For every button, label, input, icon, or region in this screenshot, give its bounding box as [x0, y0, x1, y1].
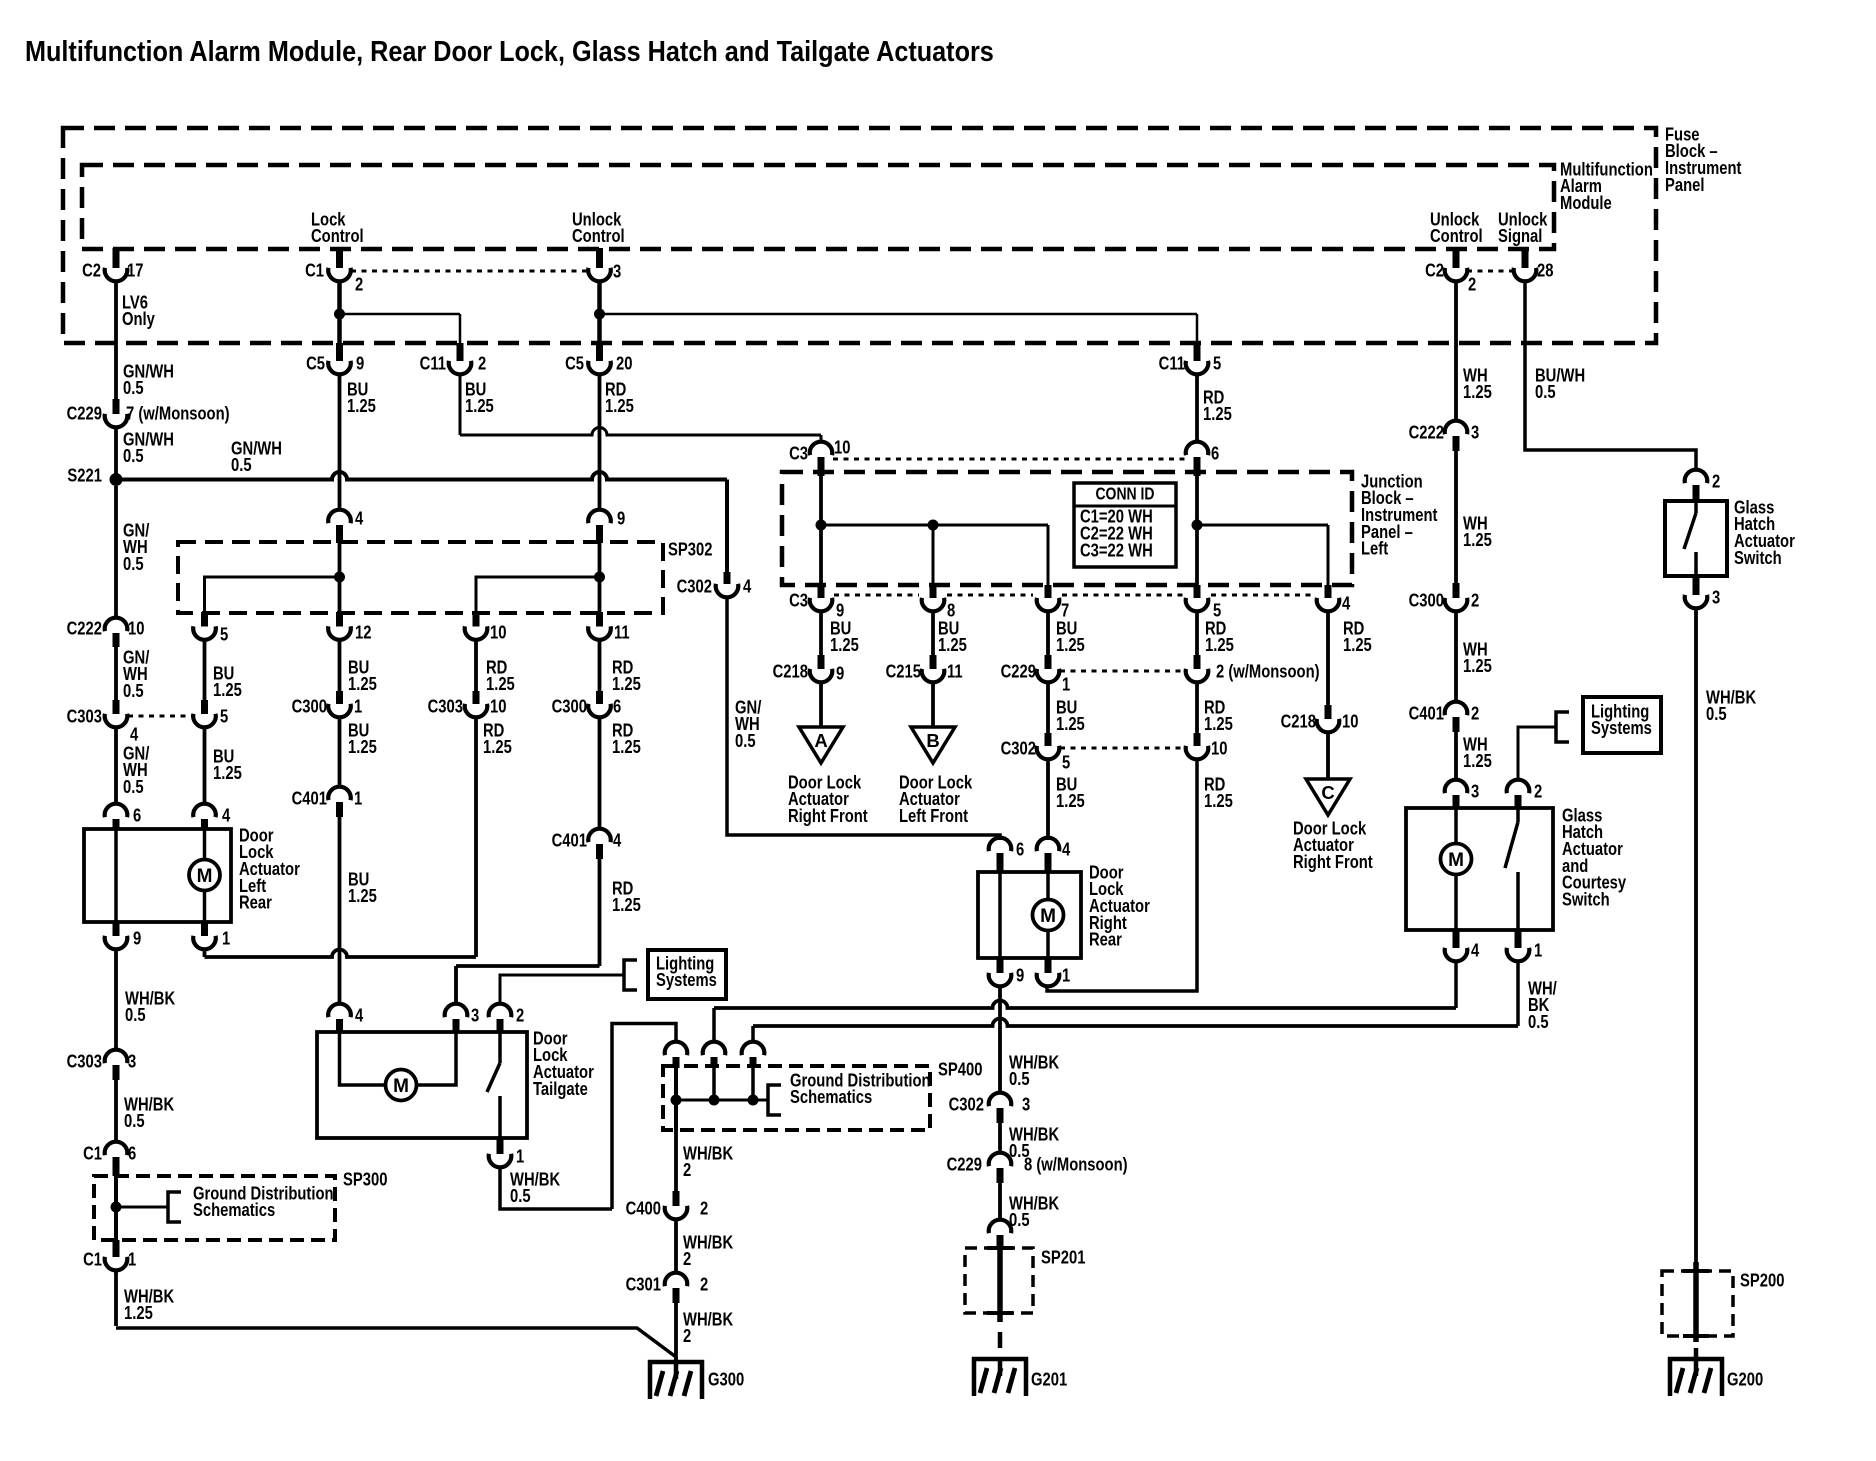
svg-text:Module: Module — [1560, 192, 1612, 213]
svg-text:1.25: 1.25 — [124, 1303, 153, 1324]
connector C11 pin 2 — [420, 343, 487, 374]
svg-text:3: 3 — [1712, 587, 1720, 608]
svg-text:Schematics: Schematics — [790, 1087, 872, 1108]
svg-text:11: 11 — [614, 622, 630, 643]
connector C11 pin 5 — [1159, 343, 1222, 374]
label WH 1.25 c — [1463, 639, 1492, 677]
svg-text:Control: Control — [311, 226, 364, 247]
svg-text:0.5: 0.5 — [231, 455, 252, 476]
svg-text:C300: C300 — [1409, 590, 1444, 611]
connector pin 4 right rear — [1037, 838, 1071, 872]
wire tailgate pin1 to riser — [500, 1166, 612, 1209]
connector above SP201 — [989, 1220, 1012, 1249]
connector pin 9 left rear — [105, 922, 142, 949]
svg-text:1.25: 1.25 — [348, 886, 377, 907]
svg-text:2: 2 — [516, 1005, 524, 1026]
svg-text:C3=22 WH: C3=22 WH — [1080, 540, 1153, 561]
svg-text:1.25: 1.25 — [465, 396, 494, 417]
connector pin 6 left rear — [105, 804, 142, 830]
left rear internal wire pin6-9 — [114, 829, 118, 922]
svg-text:0.5: 0.5 — [123, 378, 144, 399]
svg-text:C303: C303 — [428, 696, 463, 717]
ground G200 — [1670, 1359, 1763, 1396]
unlock control label right — [1430, 209, 1483, 247]
wire C300-1 chain — [338, 639, 342, 692]
svg-text:0.5: 0.5 — [123, 553, 144, 574]
svg-text:1.25: 1.25 — [483, 737, 512, 758]
connector C400 pin 2 — [626, 1191, 709, 1219]
connector C3 pin 5 — [1186, 585, 1222, 621]
svg-text:1.25: 1.25 — [1056, 635, 1085, 656]
svg-text:1.25: 1.25 — [1463, 382, 1492, 403]
svg-text:0.5: 0.5 — [1535, 382, 1556, 403]
SP300 bracket — [168, 1192, 181, 1222]
svg-text:C222: C222 — [67, 618, 102, 639]
wire SP400 C to glass pin 1 — [753, 961, 1518, 1042]
svg-text:SP200: SP200 — [1740, 1270, 1784, 1291]
wire C218-10 to triangle C — [1326, 731, 1330, 779]
connector SP400 C — [742, 1042, 765, 1068]
svg-text:M: M — [197, 866, 213, 887]
glass hatch actuator courtesy label — [1562, 805, 1627, 910]
junction internal left bus — [816, 476, 1049, 585]
label RD 1.25 c3-5 — [1205, 618, 1234, 656]
connector C229 pin 8 — [947, 1153, 1128, 1183]
junction dot C1 branch — [334, 309, 460, 320]
right rear motor M — [1033, 872, 1064, 958]
connector C3 pin 10 — [789, 437, 850, 476]
svg-text:Switch: Switch — [1562, 889, 1610, 910]
svg-text:2: 2 — [355, 274, 363, 295]
svg-text:1.25: 1.25 — [938, 635, 967, 656]
door lock actuator tailgate box — [317, 1032, 527, 1138]
connector C3 pin 4 — [1317, 585, 1351, 614]
svg-text:2: 2 — [700, 1198, 708, 1219]
wire C302-4 to right rear pin 6 — [727, 596, 1000, 840]
svg-text:1.25: 1.25 — [1205, 635, 1234, 656]
label BU/WH 0.5 — [1535, 365, 1585, 403]
svg-text:5: 5 — [1062, 752, 1070, 773]
connector C2 pin 17 — [82, 248, 143, 281]
svg-text:0.5: 0.5 — [1706, 704, 1727, 725]
svg-text:0.5: 0.5 — [1528, 1011, 1549, 1032]
svg-text:1.25: 1.25 — [612, 737, 641, 758]
svg-text:Only: Only — [122, 309, 155, 330]
wire C3-9 to C218-9 — [819, 610, 823, 656]
ground distribution schematics label SP400 — [790, 1070, 931, 1108]
connector pin 2 w monsoon — [1186, 655, 1320, 682]
svg-text:C401: C401 — [552, 830, 587, 851]
svg-text:C215: C215 — [886, 661, 921, 682]
wire tailgate pin1 riser to SP400 A — [612, 1024, 676, 1210]
label GN/WH 0.5 d — [123, 520, 150, 575]
svg-text:8 (w/Monsoon): 8 (w/Monsoon) — [1024, 1154, 1128, 1175]
svg-text:1.25: 1.25 — [348, 674, 377, 695]
wire C229-7 to S221 — [114, 426, 118, 475]
wire unlock-3 down — [597, 280, 602, 345]
label RD 1.25 c3-4 — [1343, 618, 1372, 656]
svg-text:4: 4 — [1342, 593, 1351, 614]
dotted link C3-10 to C3-6 — [833, 458, 1185, 461]
connector pin 1 glass actuator — [1507, 930, 1543, 961]
connector C215 pin 11 — [886, 655, 963, 682]
svg-text:4: 4 — [743, 576, 752, 597]
splice box SP200 — [1662, 1270, 1784, 1336]
splice box SP300 — [94, 1169, 387, 1240]
junction dot unlock branch — [594, 309, 1197, 320]
door lock actuator left rear label — [239, 825, 300, 913]
fuse block label — [1665, 124, 1742, 195]
svg-text:C300: C300 — [292, 696, 327, 717]
ground G201 — [974, 1359, 1067, 1396]
svg-text:0.5: 0.5 — [123, 680, 144, 701]
connector pin 4 glass actuator — [1445, 930, 1480, 961]
wire SP302-11 to C300-6 — [598, 639, 602, 692]
connector C3 pin 9 — [789, 585, 844, 621]
connector C303 pin 3 — [67, 1050, 137, 1080]
wire C5-9 down to SP302-4 — [338, 373, 342, 511]
connector C3 pin 8 — [922, 585, 956, 621]
wire C401-1 to tailgate pin 4 — [338, 817, 342, 1004]
label BU 1.25 c3-9 — [830, 618, 859, 656]
label RD 1.25 pin10 — [1204, 774, 1233, 812]
door lock actuator right front label A — [788, 772, 868, 827]
svg-text:10: 10 — [1342, 711, 1358, 732]
label WH/BK 0.5 h — [124, 1094, 174, 1132]
SP300 internal wire — [111, 1176, 169, 1240]
junction internal right bus — [1192, 476, 1329, 585]
SP400 internal bus — [671, 1068, 769, 1130]
svg-text:0.5: 0.5 — [123, 776, 144, 797]
wire C215-11 to triangle B — [931, 681, 935, 727]
splice box SP302 — [178, 539, 712, 613]
svg-text:1.25: 1.25 — [830, 635, 859, 656]
svg-text:1.25: 1.25 — [1343, 635, 1372, 656]
lighting systems box left — [648, 950, 726, 999]
junction block label — [1361, 471, 1438, 559]
wire C303-5 to left rear pin 4 — [203, 726, 207, 805]
svg-text:6: 6 — [133, 805, 141, 826]
svg-text:0.5: 0.5 — [1009, 1069, 1030, 1090]
svg-text:10: 10 — [490, 696, 506, 717]
svg-text:1.25: 1.25 — [1204, 791, 1233, 812]
svg-text:Systems: Systems — [656, 970, 717, 991]
lock control label — [311, 209, 364, 247]
wire C1-2 down — [337, 280, 342, 345]
svg-text:C302: C302 — [1001, 738, 1036, 759]
svg-text:5: 5 — [1213, 353, 1221, 374]
svg-text:1: 1 — [128, 1249, 136, 1270]
glass hatch actuator switch box — [1665, 501, 1727, 576]
label RD 1.25 monsoon — [1204, 697, 1233, 735]
wire C300-6 to C401-4 — [598, 716, 602, 830]
svg-text:1.25: 1.25 — [1056, 714, 1085, 735]
svg-text:SP201: SP201 — [1041, 1247, 1085, 1268]
glass courtesy switch — [1505, 808, 1518, 930]
connector C401 pin 4 — [552, 829, 622, 859]
title text — [25, 34, 994, 67]
svg-text:9: 9 — [1016, 965, 1024, 986]
svg-text:C401: C401 — [292, 788, 327, 809]
label WH/BK 0.5 right — [1706, 687, 1756, 725]
svg-text:C1: C1 — [305, 260, 324, 281]
label BU 1.25 c3-7 — [1056, 618, 1085, 656]
wire C401-4 to tailgate pin 3 — [456, 859, 600, 1004]
svg-text:2: 2 — [700, 1274, 708, 1295]
multifunction alarm module dashed box — [82, 165, 1554, 249]
door lock actuator right rear box — [978, 872, 1081, 958]
svg-text:4: 4 — [222, 805, 231, 826]
svg-text:2: 2 — [1471, 703, 1479, 724]
svg-text:17: 17 — [127, 260, 143, 281]
svg-text:0.5: 0.5 — [123, 446, 144, 467]
svg-text:4: 4 — [613, 830, 622, 851]
wire C229-8 down — [998, 1183, 1002, 1221]
label RD 1.25 c11-5 — [1203, 387, 1232, 425]
svg-text:C301: C301 — [626, 1274, 661, 1295]
svg-text:1: 1 — [354, 788, 362, 809]
connector C2 pin 2 right — [1425, 248, 1476, 295]
wire C303-3 to C1-6 — [114, 1080, 118, 1143]
door lock actuator right rear label — [1089, 862, 1150, 950]
glass hatch switch blade — [1684, 501, 1696, 576]
dotted link C3 row — [834, 594, 1314, 597]
connector C303 pin 4 — [67, 700, 139, 745]
svg-text:Left: Left — [1361, 538, 1388, 559]
connector pin 4 tailgate — [328, 1004, 364, 1033]
svg-text:6: 6 — [613, 696, 621, 717]
SP201 splice symbol — [987, 1238, 1013, 1322]
wire right rear pin9 down — [998, 985, 1002, 1094]
svg-text:9: 9 — [836, 663, 844, 684]
svg-text:SP400: SP400 — [938, 1059, 982, 1080]
svg-text:10: 10 — [128, 618, 144, 639]
svg-text:9: 9 — [356, 353, 364, 374]
svg-text:1: 1 — [354, 696, 362, 717]
wire C302-3 to C229-8 — [998, 1123, 1002, 1154]
label WH/BK 0.5 glass — [1528, 978, 1557, 1033]
SP200 splice symbol — [1683, 1262, 1709, 1342]
svg-text:28: 28 — [1537, 260, 1553, 281]
unlock signal label — [1498, 209, 1548, 247]
wire S221 down to C222-10 — [114, 486, 118, 618]
label BU 1.25 c229-1 — [1056, 697, 1085, 735]
svg-text:2: 2 — [478, 353, 486, 374]
splice box SP201 — [965, 1247, 1085, 1313]
svg-text:Multifunction Alarm Module, Re: Multifunction Alarm Module, Rear Door Lo… — [25, 34, 994, 67]
label WH/BK 0.5 j — [1009, 1124, 1059, 1162]
label BU 1.25 c3-8 — [938, 618, 967, 656]
connector C302 pin 5 — [1001, 733, 1071, 773]
wire C2-2 down — [1454, 280, 1458, 422]
wire C1-1 to G300 — [116, 1269, 676, 1362]
svg-text:1.25: 1.25 — [1463, 751, 1492, 772]
svg-text:C11: C11 — [1159, 353, 1185, 374]
wire SP302-5 to C303-5 — [203, 639, 207, 701]
svg-text:12: 12 — [355, 622, 371, 643]
door lock actuator left front label B — [899, 772, 973, 827]
connector C300 pin 2 — [1409, 583, 1480, 611]
svg-text:1.25: 1.25 — [1463, 656, 1492, 677]
multifunction alarm module label — [1560, 159, 1653, 214]
svg-text:2: 2 — [1712, 471, 1720, 492]
connector pin 1 left rear — [193, 922, 230, 949]
svg-text:2: 2 — [683, 1249, 691, 1270]
svg-text:C2: C2 — [1425, 260, 1444, 281]
svg-text:Control: Control — [572, 226, 625, 247]
svg-text:C300: C300 — [552, 696, 587, 717]
svg-text:0.5: 0.5 — [510, 1186, 531, 1207]
svg-text:B: B — [926, 730, 939, 751]
junction block dashed box — [782, 472, 1352, 585]
svg-text:0.5: 0.5 — [124, 1111, 145, 1132]
right rear internal wire pin6-9 — [998, 872, 1002, 958]
label WH 1.25 b — [1463, 513, 1492, 551]
svg-text:6: 6 — [1016, 839, 1024, 860]
connector C229 pin 1 — [1001, 655, 1071, 695]
connector pin 10 right col — [1186, 733, 1228, 759]
lighting systems bracket left — [624, 960, 637, 990]
connector C1 pin 2 — [305, 248, 363, 295]
svg-text:Rear: Rear — [1089, 929, 1122, 950]
glass hatch actuator and courtesy switch box — [1406, 808, 1553, 930]
connector C302 pin 3 — [949, 1093, 1031, 1123]
label GN/WH 0.5 c — [231, 438, 282, 476]
svg-text:C303: C303 — [67, 706, 102, 727]
svg-text:C1: C1 — [83, 1143, 102, 1164]
label GN/WH 0.5 a — [123, 361, 174, 399]
wire SP200 to G200 — [1694, 1348, 1699, 1357]
label WH/BK 1.25 — [124, 1286, 174, 1324]
connector C5 pin 9 — [306, 343, 364, 374]
wire SP400 B to glass pin 4 — [714, 961, 1456, 1042]
svg-text:2: 2 — [1534, 781, 1542, 802]
svg-text:11: 11 — [947, 661, 963, 682]
ground G300 — [650, 1362, 744, 1399]
wire C300-2 to C401-2 — [1454, 610, 1458, 703]
svg-text:CONN ID: CONN ID — [1095, 485, 1154, 504]
svg-text:C222: C222 — [1409, 422, 1444, 443]
wire branch down to C11-5 — [1196, 314, 1199, 345]
off-page triangle B — [911, 727, 955, 763]
dotted link C2-2 to 28 — [1467, 270, 1514, 273]
svg-text:Systems: Systems — [1591, 718, 1652, 739]
wire S221 to C302-4 — [725, 480, 729, 575]
wire 28 to glass hatch switch — [1525, 280, 1696, 471]
svg-text:Switch: Switch — [1734, 547, 1782, 568]
connector pin 1 right rear — [1037, 958, 1071, 986]
svg-text:C2: C2 — [82, 260, 101, 281]
label RD 1.25 c5-20 — [605, 379, 634, 417]
svg-text:3: 3 — [1471, 422, 1479, 443]
svg-text:1.25: 1.25 — [213, 763, 242, 784]
svg-text:9: 9 — [617, 508, 625, 529]
connector C229 pin 7 — [67, 399, 230, 427]
label WH/BK 0.5 k — [1009, 1193, 1059, 1231]
svg-text:1: 1 — [222, 928, 230, 949]
connector SP400 A — [665, 1042, 688, 1068]
svg-text:C400: C400 — [626, 1198, 661, 1219]
svg-text:1.25: 1.25 — [213, 680, 242, 701]
svg-text:C5: C5 — [565, 353, 584, 374]
svg-text:9: 9 — [133, 928, 141, 949]
connector pin 9 above SP302 — [588, 508, 625, 543]
svg-text:1.25: 1.25 — [1204, 714, 1233, 735]
connector C3 pin 7 — [1037, 585, 1070, 621]
connector C5 pin 20 — [565, 343, 632, 374]
door lock actuator right front label C — [1293, 818, 1373, 873]
connector C300 pin 6 — [552, 691, 622, 717]
label BU 1.25 c303-5 — [213, 746, 242, 784]
label GN/WH 0.5 c302-4 — [735, 697, 762, 752]
svg-text:1.25: 1.25 — [486, 674, 515, 695]
label WH/BK 2 a — [683, 1143, 733, 1181]
wire S221 horizontal — [116, 472, 727, 479]
svg-text:G300: G300 — [708, 1369, 744, 1390]
svg-text:C302: C302 — [677, 576, 712, 597]
svg-text:3: 3 — [613, 261, 621, 282]
door lock actuator tailgate label — [533, 1028, 594, 1099]
svg-text:C5: C5 — [306, 353, 325, 374]
label BU 1.25 sp12 — [348, 657, 377, 695]
wire C303-10 to left rear pin 1 — [205, 716, 477, 957]
svg-text:C302: C302 — [949, 1094, 984, 1115]
connector C218 pin 9 — [773, 655, 845, 684]
connector C3 pin 6 — [1186, 442, 1220, 476]
wire C301-2 to G300 — [674, 1303, 678, 1362]
label BU 1.25 c401-1 — [348, 869, 377, 907]
svg-text:C11: C11 — [420, 353, 446, 374]
connector C401 pin 2 — [1409, 702, 1480, 732]
wire branch down to C11-2 — [459, 314, 462, 345]
svg-text:SP300: SP300 — [343, 1169, 387, 1190]
off-page triangle C — [1306, 779, 1350, 815]
label BU 1.25 c302-5 — [1056, 774, 1085, 812]
connector pin 4 above SP302 — [328, 508, 364, 543]
label GN/WH 0.5 e — [123, 647, 150, 702]
svg-text:1.25: 1.25 — [612, 895, 641, 916]
svg-text:7 (w/Monsoon): 7 (w/Monsoon) — [126, 403, 230, 424]
svg-text:1.25: 1.25 — [1056, 791, 1085, 812]
svg-text:Control: Control — [1430, 226, 1483, 247]
svg-text:2: 2 — [683, 1326, 691, 1347]
label RD 1.25 sp10 — [486, 657, 515, 695]
svg-text:3: 3 — [471, 1005, 479, 1026]
left rear motor M — [189, 829, 220, 922]
label RD 1.25 c401-4 — [612, 878, 641, 916]
svg-text:Rear: Rear — [239, 892, 272, 913]
svg-text:Schematics: Schematics — [193, 1200, 275, 1221]
svg-text:M: M — [393, 1076, 409, 1097]
wire glass pin2 to lighting right — [1518, 727, 1556, 780]
connector pin 3 unlock — [588, 248, 621, 282]
label WH/BK 2 b — [683, 1232, 733, 1270]
svg-text:Right Front: Right Front — [1293, 851, 1373, 872]
connector C301 pin 2 — [626, 1273, 709, 1303]
LV6 Only label — [122, 292, 155, 330]
dotted link c302-5 to 10 — [1060, 747, 1185, 750]
CONN ID table — [1074, 483, 1176, 567]
wire C11-5 down to C3-6 — [1195, 373, 1199, 442]
svg-text:C3: C3 — [789, 590, 808, 611]
svg-text:C: C — [1321, 782, 1334, 803]
wire SP400 to C400-2 — [674, 1130, 678, 1192]
svg-text:Signal: Signal — [1498, 226, 1542, 247]
tailgate switch — [487, 1032, 500, 1138]
connector pin 2 tailgate — [489, 1004, 525, 1033]
wire C229-1 to C302-5 — [1046, 681, 1050, 734]
svg-text:SP302: SP302 — [668, 539, 712, 560]
